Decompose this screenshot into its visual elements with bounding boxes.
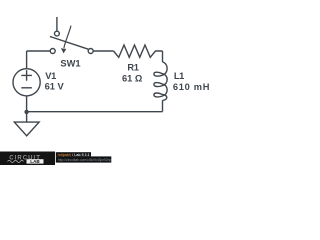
wire: V1 bottom down through junction to ground (26, 96, 28, 122)
CircuitLab watermark logo box (0, 152, 55, 166)
svg-text:LAB: LAB (30, 159, 40, 164)
switch SW1 left terminal circle (50, 49, 55, 54)
switch SW1 right terminal circle (88, 49, 93, 54)
wire: right rail bottom segment (162, 100, 164, 111)
svg-text:milpatel / Lab 5 2.1: milpatel / Lab 5 2.1 (58, 153, 90, 157)
switch SW1 arrowhead (61, 48, 66, 53)
junction node at V1/ground/bottom rail (24, 110, 28, 114)
svg-text:http://circuitlab.com/c/6k9h43: http://circuitlab.com/c/6k9h43jm92hp (58, 158, 112, 162)
wire: V1 top to top-left corner (26, 51, 28, 69)
svg-text:61 V: 61 V (45, 81, 65, 91)
wire: SW1 right terminal to R1 (93, 50, 113, 52)
V1 plus sign (21, 70, 32, 81)
V1 minus sign (21, 87, 32, 89)
wire: right rail top segment (162, 51, 164, 62)
svg-text:61 Ω: 61 Ω (122, 73, 143, 83)
svg-text:R1: R1 (127, 62, 138, 72)
switch SW1 top terminal circle (55, 31, 60, 36)
wire: bottom rail (27, 111, 163, 113)
voltage source V1 circle (13, 69, 40, 96)
switch SW1 lever (50, 37, 88, 50)
inductor L1 coil (154, 62, 167, 101)
watermark line 1 black caption bar (56, 152, 91, 156)
svg-text:SW1: SW1 (60, 59, 80, 69)
wire: top-left corner to SW1 left terminal (27, 50, 50, 52)
switch SW1 top stub wire (56, 17, 58, 31)
logo wave (8, 160, 24, 162)
svg-text:610 mH: 610 mH (173, 82, 210, 92)
resistor R1 zigzag (114, 45, 163, 57)
ground symbol triangle (14, 122, 39, 136)
svg-text:V1: V1 (45, 71, 56, 81)
svg-text:L1: L1 (174, 71, 184, 81)
switch SW1 actuation arrow arc (64, 26, 71, 48)
watermark line 2 black caption bar (56, 156, 112, 162)
